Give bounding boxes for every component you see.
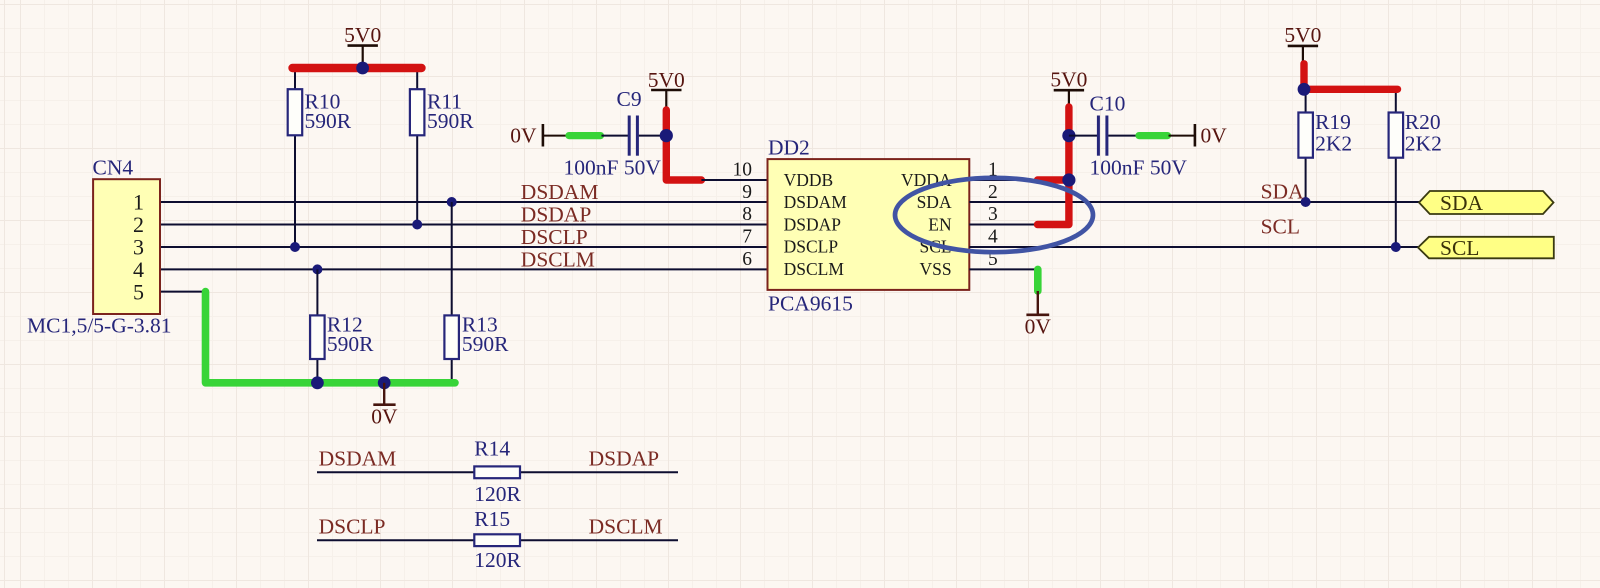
wire R15 row — [317, 539, 678, 541]
svg-text:5V0: 5V0 — [1050, 67, 1087, 91]
svg-text:7: 7 — [742, 227, 752, 248]
wire pin5 stub — [969, 268, 1038, 270]
svg-text:DSDAM: DSDAM — [784, 192, 848, 212]
svg-text:DD2: DD2 — [768, 135, 810, 159]
resistor R13 — [444, 202, 509, 383]
svg-text:590R: 590R — [305, 109, 352, 133]
svg-text:5V0: 5V0 — [648, 68, 685, 92]
wire green segment (C9 ground) — [569, 132, 601, 139]
wire 5V0 bus (red, top left) — [293, 64, 422, 72]
port SCL — [1418, 236, 1554, 260]
pin name VSS (pin 5) — [919, 259, 951, 279]
resistor R15 — [474, 507, 521, 572]
svg-text:2: 2 — [133, 212, 144, 237]
wire red 5V0 right bus — [1304, 64, 1398, 90]
svg-text:DSDAM: DSDAM — [521, 180, 599, 204]
wire SCL row (pin4 to port) — [969, 246, 1418, 248]
svg-text:5: 5 — [133, 279, 144, 304]
net label DSDAP (bottom) — [589, 446, 660, 470]
power port 0V (left of C9) — [510, 124, 567, 148]
svg-text:590R: 590R — [462, 332, 509, 356]
net label SCL — [1261, 215, 1300, 239]
capacitor C10 — [1069, 92, 1187, 180]
svg-text:R14: R14 — [474, 437, 510, 461]
wire 0V green bus (bottom left) — [206, 292, 456, 383]
net label DSCLM — [521, 247, 595, 271]
port SDA — [1419, 191, 1554, 215]
power port 5V0 (top left) — [344, 23, 381, 68]
wire DSCLP row (CN4.3 to DD2.7) — [160, 246, 768, 248]
junction R19 / SDA row — [1301, 197, 1311, 207]
pin name VDDA (pin 1) — [901, 170, 952, 190]
wire CN4.5 stub — [160, 291, 206, 293]
wire C10 to 0V — [1108, 135, 1137, 137]
power port 0V (below VSS) — [1025, 291, 1052, 338]
power port 5V0 (top right) — [1284, 23, 1321, 65]
svg-text:SDA: SDA — [1440, 191, 1483, 215]
resistor R12 — [310, 269, 374, 382]
svg-text:5V0: 5V0 — [1284, 23, 1321, 47]
svg-text:SCL: SCL — [1261, 215, 1300, 239]
svg-text:9: 9 — [742, 182, 752, 203]
power port 0V (below green bus) — [371, 383, 398, 429]
wire DSCLM row (CN4.4 to DD2.6) — [160, 268, 768, 270]
resistor R19 — [1298, 89, 1352, 202]
pin name VDDB (pin 10) — [784, 170, 834, 190]
wire red 5V0 to DD2 pin10 — [666, 110, 701, 180]
svg-text:R20: R20 — [1405, 110, 1441, 134]
svg-text:590R: 590R — [427, 109, 474, 133]
wire pin10 stub — [701, 179, 767, 181]
junction R10 / DSCLP row — [290, 242, 300, 252]
wire pin1 stub — [969, 179, 1037, 181]
resistor R20 — [1389, 89, 1442, 247]
svg-text:10: 10 — [733, 160, 753, 181]
net label SDA — [1261, 180, 1304, 204]
junction R20 / SCL row — [1391, 242, 1401, 252]
svg-text:SDA: SDA — [1261, 180, 1304, 204]
svg-text:R19: R19 — [1315, 110, 1351, 134]
capacitor C9 — [564, 87, 662, 179]
net label DSCLM (bottom) — [589, 515, 663, 539]
svg-text:0V: 0V — [510, 124, 537, 148]
junction C9 / red wire — [660, 129, 673, 142]
svg-text:C9: C9 — [617, 87, 642, 111]
svg-text:DSDAP: DSDAP — [589, 446, 660, 470]
power port 5V0 (above C9) — [648, 68, 685, 111]
svg-text:SDA: SDA — [917, 192, 952, 212]
junction green bus / R12 — [311, 376, 324, 389]
resistor R10 — [288, 68, 352, 247]
power port 0V (right of C10) — [1169, 124, 1228, 148]
svg-text:DSDAP: DSDAP — [784, 214, 842, 234]
annotation blue ellipse around SDA/EN — [895, 178, 1093, 252]
svg-text:C10: C10 — [1090, 92, 1126, 116]
svg-text:CN4: CN4 — [93, 156, 134, 180]
wire green seg to C9 — [602, 135, 629, 137]
wire DSDAP row (CN4.2 to DD2.8) — [160, 224, 768, 226]
svg-text:2K2: 2K2 — [1405, 131, 1442, 155]
wire pin3 stub — [969, 224, 1037, 226]
pin name SDA (pin 2) — [917, 192, 952, 212]
svg-text:DSCLM: DSCLM — [521, 247, 595, 271]
svg-text:3: 3 — [133, 235, 144, 260]
resistor R11 — [410, 68, 474, 225]
svg-text:1: 1 — [133, 190, 144, 215]
wire C9 to junction — [639, 135, 667, 137]
svg-text:590R: 590R — [327, 332, 374, 356]
pin number 8 — [742, 204, 752, 225]
svg-text:SCL: SCL — [1440, 236, 1479, 260]
pin number 6 — [742, 249, 752, 270]
svg-text:4: 4 — [988, 227, 998, 248]
junction on 5V0 bus — [356, 62, 369, 75]
connector CN4 — [27, 156, 172, 338]
pin name DSDAM (pin 9) — [784, 192, 848, 212]
svg-text:100nF 50V: 100nF 50V — [1090, 155, 1188, 179]
svg-text:MC1,5/5-G-3.81: MC1,5/5-G-3.81 — [27, 314, 172, 338]
junction green bus / 0V port — [378, 376, 391, 389]
junction R12 / DSCLM row — [312, 264, 322, 274]
pin number 10 — [733, 160, 753, 181]
pin number 1 — [988, 160, 998, 181]
net label DSDAP — [521, 203, 592, 227]
svg-text:DSCLP: DSCLP — [319, 515, 386, 539]
svg-text:VDDB: VDDB — [784, 170, 834, 190]
svg-text:DSDAP: DSDAP — [521, 203, 592, 227]
pin number 4 — [988, 227, 998, 248]
svg-text:DSCLP: DSCLP — [784, 237, 839, 257]
svg-text:0V: 0V — [1201, 124, 1228, 148]
pin number 2 — [988, 182, 998, 203]
net label DSDAM (bottom) — [319, 446, 397, 470]
svg-text:3: 3 — [988, 204, 998, 225]
net label DSCLP — [521, 225, 588, 249]
pin number 7 — [742, 227, 752, 248]
svg-text:100nF 50V: 100nF 50V — [564, 155, 662, 179]
pin name EN (pin 3) — [928, 214, 952, 234]
junction VDDA / red wire — [1062, 173, 1075, 186]
svg-text:8: 8 — [742, 204, 752, 225]
pin number 3 — [988, 204, 998, 225]
svg-text:6: 6 — [742, 249, 752, 270]
resistor R14 — [474, 437, 521, 506]
pin name DSCLM (pin 6) — [784, 259, 845, 279]
svg-text:DSCLM: DSCLM — [589, 515, 663, 539]
junction R11 / DSDAP row — [412, 220, 422, 230]
svg-text:0V: 0V — [371, 405, 398, 429]
pin number 9 — [742, 182, 752, 203]
svg-text:5V0: 5V0 — [344, 23, 381, 47]
pin name DSDAP (pin 8) — [784, 214, 842, 234]
power port 5V0 (above C10) — [1050, 67, 1087, 108]
svg-text:0V: 0V — [1025, 314, 1052, 338]
wire green segment (VSS ground) — [1034, 269, 1042, 291]
net label DSDAM — [521, 180, 599, 204]
net label DSCLP (bottom) — [319, 515, 386, 539]
wire R14 row — [317, 471, 678, 473]
svg-text:EN: EN — [928, 214, 952, 234]
junction R13 / DSDAM row — [447, 197, 457, 207]
pin number 5 — [988, 249, 998, 270]
wire DSDAM row (CN4.1 to DD2.9) — [160, 201, 768, 203]
pin name SCL (pin 4) — [919, 237, 951, 257]
svg-text:2: 2 — [988, 182, 998, 203]
junction 5V0 right bus — [1298, 83, 1311, 96]
junction C10 / red wire — [1062, 129, 1075, 142]
IC DD2 PCA9615 — [768, 135, 970, 315]
wire green segment (C10 ground) — [1139, 132, 1168, 139]
pin name DSCLP (pin 7) — [784, 237, 839, 257]
wire SDA row (pin2 to port) — [969, 201, 1419, 203]
svg-text:120R: 120R — [474, 548, 521, 572]
svg-text:R15: R15 — [474, 507, 510, 531]
svg-text:DSDAM: DSDAM — [319, 446, 397, 470]
svg-text:DSCLP: DSCLP — [521, 225, 588, 249]
svg-text:PCA9615: PCA9615 — [768, 292, 853, 316]
svg-text:VSS: VSS — [919, 259, 951, 279]
wire red 5V0 to VDDA and EN — [1038, 107, 1069, 225]
svg-text:120R: 120R — [474, 482, 521, 506]
svg-text:DSCLM: DSCLM — [784, 259, 845, 279]
svg-text:2K2: 2K2 — [1315, 131, 1352, 155]
